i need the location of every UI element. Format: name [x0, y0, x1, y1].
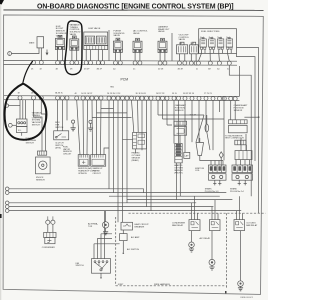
relay 3 wires — [237, 196, 243, 219]
svg-text:SWITCH: SWITCH — [32, 125, 41, 127]
ground G3 — [240, 231, 242, 281]
wires to bus — [179, 54, 196, 61]
circuit breaker — [121, 222, 133, 230]
wire relay to bus — [40, 48, 42, 61]
svg-text:MAIN: MAIN — [29, 42, 35, 45]
svg-text:ON-BOARD DIAGNOSTIC [ENGINE CO: ON-BOARD DIAGNOSTIC [ENGINE CONTROL SYST… — [37, 3, 234, 10]
IGN switch feed wires — [94, 211, 105, 259]
node feed circle 1 — [8, 52, 12, 56]
svg-text:CAP: CAP — [184, 154, 189, 157]
svg-text:A/C AMP: A/C AMP — [131, 236, 140, 239]
wire feed to relay — [12, 48, 40, 54]
IAC valve — [133, 38, 142, 52]
crankshaft position sensor — [229, 120, 248, 124]
condenser — [44, 232, 56, 237]
svg-text:SWITCH: SWITCH — [76, 265, 85, 267]
wires PCM strip down centre block — [77, 100, 109, 155]
HO2S rear connector — [133, 132, 147, 149]
power steering switch label — [26, 138, 37, 145]
right margin riser 1 — [237, 48, 259, 214]
svg-text:CIRCUIT: CIRCUIT — [63, 154, 72, 156]
wire battery feed 2 — [9, 192, 226, 194]
svg-text:SENSOR: SENSOR — [36, 179, 45, 181]
knock sensor connector — [38, 151, 47, 155]
wires to bus — [86, 50, 102, 61]
relay 2 wires — [212, 200, 218, 220]
ignition coil block 1 terminals — [209, 165, 227, 173]
ignition coil block 2 body — [232, 174, 253, 181]
svg-text:CIRCUIT: CIRCUIT — [93, 173, 102, 175]
HO2S front sensor wires — [177, 163, 181, 200]
svg-text:3M: 3M — [208, 69, 211, 71]
outer frame — [3, 15, 263, 295]
annotation loop around variable tumble solenoid — [65, 21, 82, 75]
svg-text:TO2 4P: TO2 4P — [190, 115, 197, 117]
fuel tank sensor label — [63, 146, 72, 155]
arrow to harness — [46, 50, 48, 55]
bus row 1 connector circles — [32, 61, 232, 66]
coil connector box upper — [235, 151, 252, 160]
dashed A/C boundary right — [226, 213, 228, 289]
svg-text:CONDENSER: CONDENSER — [42, 247, 56, 249]
cooling fan relay — [234, 220, 245, 231]
ground G1 — [191, 231, 193, 242]
svg-text:VALVE: VALVE — [113, 34, 120, 37]
svg-text:PLUGS No.2-4: PLUGS No.2-4 — [230, 191, 245, 193]
wire battery feed 1 — [9, 189, 144, 193]
svg-text:4G 4P: 4G 4P — [84, 68, 90, 70]
svg-text:PCM: PCM — [121, 77, 129, 81]
svg-text:A/C RELAY: A/C RELAY — [200, 237, 211, 240]
service connector labels — [78, 167, 103, 175]
coil block feed wires — [200, 156, 223, 166]
svg-text:WIRE HARNESS: WIRE HARNESS — [154, 283, 170, 286]
EGR boost sensor solenoid valve — [56, 35, 65, 49]
relay 1 wires — [192, 196, 198, 219]
svg-text:(REAR): (REAR) — [132, 159, 139, 162]
right margin riser 3 — [237, 53, 256, 161]
wires PCM strip down left block — [20, 100, 67, 151]
svg-text:VALVE: VALVE — [70, 33, 77, 36]
PCM strip connector circles — [18, 96, 237, 101]
dashed A/C boundary top — [129, 212, 266, 214]
dashed A/C boundary left — [115, 217, 117, 286]
vacuum switch box — [12, 124, 16, 126]
wires to bus — [116, 52, 121, 61]
vacuum switch connector circle — [8, 123, 12, 127]
wires to bus — [58, 49, 63, 61]
spark plugs No.2 No.4 — [238, 180, 247, 185]
wire ignition feed 1 — [9, 202, 196, 204]
neutral switch box — [54, 131, 69, 140]
svg-text:4N 4H: 4N 4H — [178, 69, 184, 71]
svg-text:VALVE: VALVE — [179, 38, 186, 41]
svg-text:TOR: TOR — [88, 226, 93, 228]
svg-text:4M 4F: 4M 4F — [97, 68, 103, 70]
svg-text:VALVE: VALVE — [133, 32, 140, 35]
wire ignition feed 2 — [9, 206, 213, 208]
wires to bus — [135, 52, 140, 61]
svg-text:A/C SWITCH: A/C SWITCH — [127, 248, 140, 251]
node circle left — [5, 104, 8, 107]
stray riser wire — [108, 30, 110, 61]
HO2S rear label — [132, 152, 141, 162]
svg-text:SENSOR: SENSOR — [175, 110, 184, 112]
variable tumble control solenoid valve — [70, 36, 79, 50]
condenser terminal circles — [46, 220, 50, 224]
IGN switch ground stub — [100, 273, 102, 277]
svg-text:VALVE: VALVE — [158, 30, 165, 33]
ground G2 — [211, 231, 213, 260]
IGN switch — [92, 259, 111, 274]
pressure switch box — [16, 127, 27, 133]
svg-text:SENSOR: SENSOR — [234, 110, 243, 112]
svg-text:2E 2F 2H 2J 2K: 2E 2F 2H 2J 2K — [107, 93, 121, 95]
HO2S front cap — [184, 152, 190, 158]
knock sensor — [36, 157, 51, 174]
alternator — [102, 222, 108, 228]
svg-text:(MTX): (MTX) — [55, 148, 61, 150]
scan mark left edge — [0, 214, 2, 218]
coil feed diamond — [219, 152, 223, 158]
purge solenoid valve — [113, 38, 122, 52]
svg-text:3K 3L: 3K 3L — [172, 93, 177, 95]
crankshaft position sensor label — [234, 104, 249, 112]
ignition coil block 2 terminals — [232, 165, 253, 173]
right margin riser 2 — [229, 65, 251, 196]
svg-text:EGR VALVE: EGR VALVE — [89, 27, 101, 30]
PCM strip pin labels — [18, 92, 213, 96]
relay box K1 — [37, 37, 44, 48]
bus row 1 pin labels — [31, 68, 230, 70]
bus row 1 rails — [4, 59, 237, 62]
ignition coil block 1 body — [209, 174, 227, 181]
service connector A — [78, 155, 89, 167]
svg-text:JOINT: JOINT — [118, 284, 125, 286]
wire aux horizontal 1 — [109, 195, 220, 197]
ignition coil symbol — [196, 143, 204, 156]
wires to crankshaft sensor — [231, 101, 236, 120]
node circle trio left — [5, 201, 9, 205]
clutch switch stub — [72, 120, 75, 123]
svg-text:4D 4E: 4D 4E — [158, 69, 164, 71]
svg-text:HB2: HB2 — [110, 87, 114, 89]
dashed A/C boundary bottom — [116, 285, 227, 287]
svg-text:BREAKER: BREAKER — [135, 225, 145, 228]
PCM strip right end riser — [238, 66, 240, 96]
svg-text:4J: 4J — [196, 69, 198, 71]
A/C relay — [210, 220, 221, 231]
svg-text:FE3E-18-9C1: FE3E-18-9C1 — [241, 297, 255, 299]
EGR valve assembly — [84, 32, 108, 46]
svg-text:2M 2P 2R: 2M 2P 2R — [156, 93, 165, 95]
fuel injectors box — [199, 29, 237, 54]
annotation loop around vacuum switch area — [23, 62, 33, 84]
svg-text:3N 3P 3R 3S: 3N 3P 3R 3S — [183, 93, 195, 95]
wire aux horizontal 2 — [127, 199, 232, 201]
svg-text:FAN RELAY: FAN RELAY — [246, 224, 258, 227]
corner scan mark top-left — [0, 0, 4, 5]
variable tumble vacuum switch label — [32, 112, 43, 127]
svg-text:(FRONT): (FRONT) — [174, 172, 183, 174]
svg-text:3D 3F 3H 3J: 3D 3F 3H 3J — [136, 93, 147, 95]
camshaft position sensor — [174, 121, 187, 125]
crank sensor link — [244, 116, 258, 118]
HO2S front connector strip — [175, 144, 182, 163]
A/C amp wires — [122, 230, 124, 252]
clutch switch label — [55, 143, 64, 150]
service connector B — [91, 155, 106, 167]
vent solenoid valve — [158, 38, 167, 52]
inline connector oval — [205, 124, 209, 132]
svg-text:OPINION: OPINION — [78, 173, 87, 175]
node B+ circle pair left — [5, 187, 9, 191]
wires to bus — [160, 52, 165, 61]
wires to bus — [72, 50, 77, 61]
horizontal jogs centre — [158, 115, 224, 132]
PCM strip rails — [4, 95, 239, 98]
test connector box — [235, 140, 246, 145]
injector wires to bus — [201, 50, 231, 54]
condenser feed wires — [48, 224, 53, 232]
svg-text:PLUGS No.1-3: PLUGS No.1-3 — [205, 191, 220, 193]
MTX neutral switch label — [55, 122, 64, 129]
spark plugs No.1 No.3 — [213, 180, 221, 185]
svg-text:3A 3B 3C: 3A 3B 3C — [55, 92, 64, 95]
A/C amplifier — [120, 234, 128, 241]
diagonal link wires — [196, 115, 210, 150]
svg-text:2T 2V 2X: 2T 2V 2X — [204, 93, 213, 95]
svg-text:SWITCH: SWITCH — [26, 143, 35, 145]
wire ignition feed 3 — [9, 210, 241, 212]
HO2S front label — [174, 164, 183, 174]
camshaft position sensor label — [175, 104, 187, 112]
title rule — [4, 9, 263, 12]
scan mark right edge bottom — [225, 291, 227, 294]
svg-text:1H 1K 1M 1P: 1H 1K 1M 1P — [81, 93, 93, 95]
right margin link — [245, 145, 247, 151]
spare switch stub — [89, 120, 92, 123]
scanner edge shade — [0, 0, 1, 300]
svg-text:FUEL INJECTORS: FUEL INJECTORS — [201, 31, 220, 33]
svg-text:FAN RELAY: FAN RELAY — [172, 224, 184, 227]
svg-text:SWITCH: SWITCH — [55, 127, 64, 129]
condenser fan relay — [189, 220, 200, 231]
